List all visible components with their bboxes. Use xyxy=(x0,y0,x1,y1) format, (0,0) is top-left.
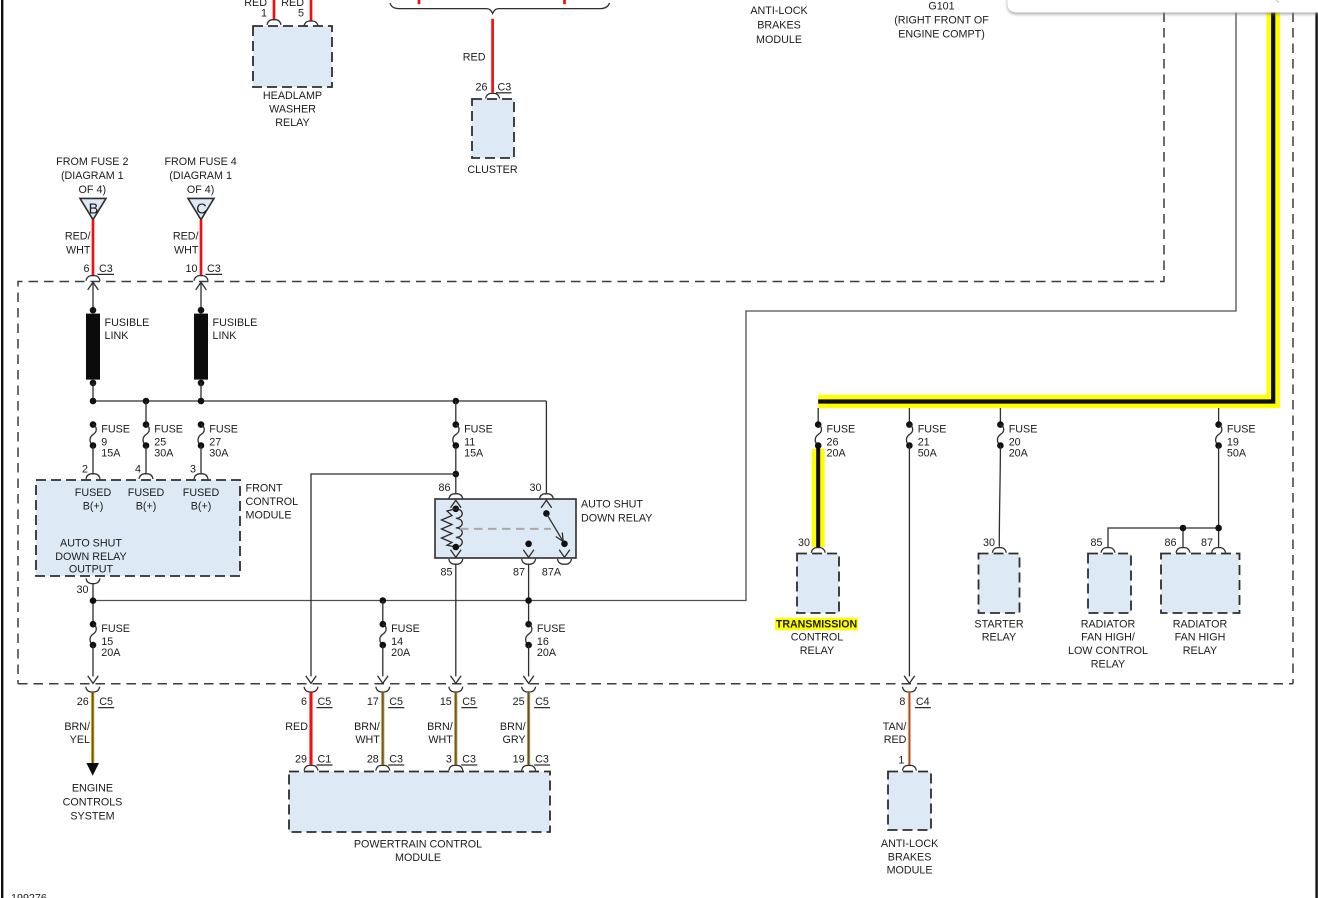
svg-text:DOWN RELAY: DOWN RELAY xyxy=(55,551,126,563)
label AUTO SHUT DOWN RELAY OUTPUT xyxy=(55,538,126,576)
svg-text:TRANSMISSION: TRANSMISSION xyxy=(776,619,857,631)
label FUSE 27 30A xyxy=(209,424,238,460)
svg-text:MODULE: MODULE xyxy=(756,34,802,46)
wire bus corner to ASD relay pin 30 xyxy=(545,401,547,493)
svg-text:15: 15 xyxy=(440,696,452,708)
svg-text:30: 30 xyxy=(530,482,542,494)
svg-text:5: 5 xyxy=(298,8,304,20)
svg-text:C5: C5 xyxy=(99,696,113,708)
svg-text:50A: 50A xyxy=(1227,447,1247,459)
svg-text:FUSE: FUSE xyxy=(1009,424,1038,436)
svg-text:TAN/: TAN/ xyxy=(883,721,907,733)
anti-lock brakes module pin 1 xyxy=(898,755,916,771)
svg-text:OF 4): OF 4) xyxy=(187,184,214,196)
svg-text:C5: C5 xyxy=(462,696,476,708)
svg-text:FUSE: FUSE xyxy=(391,623,420,635)
wire RED to headlamp washer relay pin 1 xyxy=(244,0,281,25)
svg-text:OUTPUT: OUTPUT xyxy=(69,563,114,575)
svg-text:RED/: RED/ xyxy=(65,231,91,243)
svg-text:SYSTEM: SYSTEM xyxy=(70,811,114,823)
label RADIATOR FAN HIGH/LOW CONTROL RELAY xyxy=(1068,618,1148,670)
connector triangle B xyxy=(80,198,106,219)
svg-text:17: 17 xyxy=(367,696,379,708)
svg-text:3: 3 xyxy=(446,754,452,766)
svg-text:BRAKES: BRAKES xyxy=(757,20,801,32)
svg-text:C3: C3 xyxy=(498,82,512,94)
svg-text:(RIGHT FRONT OF: (RIGHT FRONT OF xyxy=(894,15,989,27)
svg-text:RED/: RED/ xyxy=(173,231,199,243)
svg-text:(DIAGRAM 1: (DIAGRAM 1 xyxy=(61,170,124,182)
svg-text:3: 3 xyxy=(190,464,196,476)
svg-text:CLUSTER: CLUSTER xyxy=(467,164,517,176)
svg-text:20A: 20A xyxy=(827,447,847,459)
fuse 16 20A xyxy=(525,621,532,648)
svg-text:6: 6 xyxy=(301,696,307,708)
svg-text:HEADLAMP: HEADLAMP xyxy=(263,90,322,102)
svg-text:BRAKES: BRAKES xyxy=(888,852,932,864)
svg-text:C3: C3 xyxy=(389,754,403,766)
label FROM FUSE 4 (DIAGRAM 1 OF 4) xyxy=(164,156,236,196)
junction node fan relay 86 xyxy=(1180,525,1187,532)
svg-text:B(+): B(+) xyxy=(191,501,212,513)
svg-text:CONTROLS: CONTROLS xyxy=(63,797,123,809)
radiator fan high/low relay pin 85 xyxy=(1091,537,1115,553)
transmission control relay pin 30 xyxy=(798,537,825,553)
svg-text:FUSE: FUSE xyxy=(827,424,856,436)
svg-text:RELAY: RELAY xyxy=(1183,645,1217,657)
svg-text:RELAY: RELAY xyxy=(982,632,1016,644)
wire bus to fuse 11 xyxy=(455,401,457,425)
svg-text:30: 30 xyxy=(77,584,89,596)
anti-lock brakes module box xyxy=(888,772,931,831)
wire junction to PCM feed drop xyxy=(311,474,456,676)
label AUTO SHUT DOWN RELAY xyxy=(581,499,652,525)
wire fuse 19 to radiator fan relays xyxy=(1108,446,1219,548)
wire RED brace to cluster xyxy=(463,19,493,93)
wire fuse 27 to FCM pin 3 xyxy=(190,446,208,480)
svg-text:30A: 30A xyxy=(209,447,229,459)
svg-text:BRN/: BRN/ xyxy=(427,721,453,733)
wire fuse 25 to FCM pin 4 xyxy=(135,446,153,480)
svg-text:MODULE: MODULE xyxy=(887,865,933,877)
svg-text:15A: 15A xyxy=(101,447,121,459)
svg-text:30A: 30A xyxy=(154,447,174,459)
svg-text:ENGINE COMPT): ENGINE COMPT) xyxy=(898,29,985,41)
highlighted yellow power feed wire xyxy=(818,12,1273,402)
svg-text:C5: C5 xyxy=(389,696,403,708)
junction node fuse 16 / pin 87 xyxy=(525,597,532,604)
svg-text:RED: RED xyxy=(463,52,486,64)
svg-text:19: 19 xyxy=(513,754,525,766)
label FUSIBLE LINK right xyxy=(213,317,258,342)
svg-text:FAN HIGH: FAN HIGH xyxy=(1175,632,1226,644)
svg-text:30: 30 xyxy=(798,537,810,549)
svg-text:B(+): B(+) xyxy=(136,501,157,513)
svg-text:20A: 20A xyxy=(1009,447,1029,459)
svg-text:RED: RED xyxy=(884,734,907,746)
starter relay box xyxy=(979,554,1020,614)
wire fuse 20 to starter relay xyxy=(999,446,1000,547)
junction node fuse 25 tap xyxy=(143,398,150,405)
wire yellow bus to fuse 19 xyxy=(1218,408,1220,425)
svg-text:FUSED: FUSED xyxy=(183,487,220,499)
svg-text:FUSE: FUSE xyxy=(154,424,183,436)
svg-text:C: C xyxy=(196,202,206,218)
ASD contact 87 node xyxy=(525,541,532,548)
wire RED to PCM xyxy=(285,692,311,765)
right page border xyxy=(1315,0,1317,898)
svg-text:FUSE: FUSE xyxy=(918,424,947,436)
ASD switch pivot node xyxy=(543,510,550,517)
svg-text:LOW CONTROL: LOW CONTROL xyxy=(1068,645,1148,657)
svg-text:RADIATOR: RADIATOR xyxy=(1081,618,1136,630)
wire fuse 14 to boundary xyxy=(378,645,389,683)
svg-text:WHT: WHT xyxy=(355,734,380,746)
svg-text:BRN/: BRN/ xyxy=(500,721,526,733)
svg-text:ANTI-LOCK: ANTI-LOCK xyxy=(881,838,939,850)
svg-text:87: 87 xyxy=(1201,537,1213,549)
wire from top right to relay bus xyxy=(93,13,1236,601)
svg-text:ANTI-LOCK: ANTI-LOCK xyxy=(750,5,808,17)
svg-text:AUTO SHUT: AUTO SHUT xyxy=(60,538,122,550)
ASD coil ground arrow 85 xyxy=(451,550,462,558)
svg-text:RADIATOR: RADIATOR xyxy=(1173,618,1228,630)
connector 17 C5 xyxy=(367,687,404,708)
wire RED/WHT from C to connector 10 C3 xyxy=(173,220,201,276)
label HEADLAMP WASHER RELAY xyxy=(263,90,322,129)
radiator fan high relay box xyxy=(1161,554,1240,614)
svg-text:26: 26 xyxy=(77,696,89,708)
wire yellow bus to fuse 21 xyxy=(908,408,910,425)
radiator fan high relay pin 86 xyxy=(1165,537,1190,553)
label FUSE 11 15A xyxy=(464,424,493,460)
arrow PCM feed into bottom boundary xyxy=(306,676,317,684)
label TRANSMISSION CONTROL RELAY xyxy=(775,618,858,657)
svg-text:AUTO SHUT: AUTO SHUT xyxy=(581,499,643,511)
svg-text:199276: 199276 xyxy=(11,892,47,898)
svg-text:C3: C3 xyxy=(207,263,221,275)
auto shut down relay box xyxy=(435,499,576,558)
label FUSE 20 20A xyxy=(1009,424,1038,460)
label ENGINE CONTROLS SYSTEM xyxy=(63,783,123,823)
svg-text:GRY: GRY xyxy=(502,734,525,746)
ASD switch arm xyxy=(546,513,563,541)
svg-text:20A: 20A xyxy=(537,647,557,659)
svg-text:RELAY: RELAY xyxy=(275,117,309,129)
svg-text:50A: 50A xyxy=(918,447,938,459)
label FUSED B(+) pin4 xyxy=(128,487,165,513)
PCM pin 19 C3 xyxy=(513,754,550,771)
svg-text:MODULE: MODULE xyxy=(246,510,292,522)
brace gathering wires xyxy=(390,3,610,13)
front control module box FCM xyxy=(36,480,240,576)
ASD coil top node xyxy=(453,506,460,513)
wire fuse 16 to boundary xyxy=(523,645,534,683)
svg-text:BRN/: BRN/ xyxy=(354,721,380,733)
svg-text:LINK: LINK xyxy=(213,330,238,342)
wire fuse 9 to FCM pin 2 xyxy=(82,446,100,480)
label POWERTRAIN CONTROL MODULE xyxy=(354,839,482,865)
ASD coil terminal arrow 86 xyxy=(451,500,462,508)
svg-text:FUSED: FUSED xyxy=(128,487,165,499)
svg-text:ENGINE: ENGINE xyxy=(72,783,113,795)
wire bus to fuse 25 xyxy=(145,401,147,425)
label FUSE 14 20A xyxy=(391,623,420,659)
wire yellow bus to fuse 26 xyxy=(817,408,819,425)
label ANTI-LOCK BRAKES MODULE (top) xyxy=(750,5,808,46)
svg-text:15A: 15A xyxy=(464,447,484,459)
highlighted wire fuse 26 to transmission control relay xyxy=(812,446,825,548)
cluster box xyxy=(472,99,514,158)
svg-text:RELAY: RELAY xyxy=(1091,658,1125,670)
ASD switch common arrow 30 xyxy=(541,500,552,508)
fusible link left xyxy=(86,307,100,401)
red wire stub above brace right xyxy=(563,0,566,4)
svg-text:B: B xyxy=(89,202,99,218)
dashed boundary right edge xyxy=(1292,13,1294,684)
svg-text:BRN/: BRN/ xyxy=(64,721,90,733)
svg-text:RELAY: RELAY xyxy=(800,645,834,657)
label FUSED B(+) pin2 xyxy=(75,487,112,513)
label FUSED B(+) pin3 xyxy=(183,487,220,513)
ASD contact 87A node xyxy=(561,541,568,548)
svg-text:FUSE: FUSE xyxy=(464,424,493,436)
svg-text:FUSE: FUSE xyxy=(1227,424,1256,436)
PCM pin 28 C3 xyxy=(367,754,404,771)
dashed boundary of underhood fuse box xyxy=(18,13,1164,684)
svg-text:C3: C3 xyxy=(535,754,549,766)
fuse 25 30A xyxy=(143,421,150,449)
wire RED/WHT from B to connector 6 C3 xyxy=(65,220,93,276)
fuse 20 20A xyxy=(997,421,1004,449)
starter relay pin 30 xyxy=(983,537,1006,553)
svg-text:C3: C3 xyxy=(462,754,476,766)
svg-text:WASHER: WASHER xyxy=(269,104,316,116)
transmission control relay box xyxy=(797,554,839,614)
ASD relay pin 87A xyxy=(542,559,572,579)
ASD relay pin 85 xyxy=(441,559,463,579)
svg-text:CONTROL: CONTROL xyxy=(791,632,844,644)
svg-text:FUSIBLE: FUSIBLE xyxy=(213,317,258,329)
wire BRN/WHT to PCM pin 28 xyxy=(354,692,383,765)
label FRONT CONTROL MODULE xyxy=(246,483,299,522)
wire entering boundary at 10 C3 xyxy=(196,282,207,310)
wire entering boundary at 6 C3 xyxy=(88,282,99,310)
label STARTER RELAY xyxy=(974,618,1023,643)
wire fuse 21 to boundary xyxy=(904,446,915,684)
ASD mechanical linkage dashed xyxy=(460,528,551,530)
svg-text:FUSE: FUSE xyxy=(101,424,130,436)
connector 15 C5 xyxy=(440,687,477,708)
svg-text:G101: G101 xyxy=(928,1,954,13)
radiator fan high relay pin 87 xyxy=(1201,537,1226,553)
dashed boundary bottom edge xyxy=(18,683,1293,685)
wire BRN/GRY to PCM pin 19 xyxy=(500,692,529,765)
junction node fan relay 87 xyxy=(1215,525,1222,532)
svg-text:FUSIBLE: FUSIBLE xyxy=(105,317,150,329)
svg-text:LINK: LINK xyxy=(105,330,130,342)
connector 25 C5 xyxy=(513,687,550,708)
svg-text:OF 4): OF 4) xyxy=(79,184,106,196)
label G101 ground location xyxy=(894,1,989,41)
label FUSE 21 50A xyxy=(918,424,947,460)
svg-text:25: 25 xyxy=(513,696,525,708)
svg-text:28: 28 xyxy=(367,754,379,766)
label FUSE 16 20A xyxy=(537,623,566,659)
FCM output pin 30 xyxy=(77,578,100,624)
svg-text:CONTROL: CONTROL xyxy=(246,496,299,508)
arrow to engine controls system xyxy=(86,763,99,776)
ASD relay resistor xyxy=(442,509,456,547)
svg-text:1: 1 xyxy=(898,755,904,767)
svg-text:YEL: YEL xyxy=(70,734,90,746)
label FUSE 25 30A xyxy=(154,424,183,460)
svg-text:2: 2 xyxy=(82,464,88,476)
PCM pin 3 C3 xyxy=(446,754,477,771)
svg-text:FROM FUSE 4: FROM FUSE 4 xyxy=(164,156,236,168)
svg-text:10: 10 xyxy=(186,263,198,275)
fuse 27 30A xyxy=(198,421,205,449)
headlamp washer relay box xyxy=(253,26,332,87)
connector 8 C4 xyxy=(899,687,930,708)
label FUSE 15 20A xyxy=(101,623,130,659)
ASD relay pin 87 xyxy=(513,559,536,579)
connector 6 C5 xyxy=(301,687,332,708)
wire ASD pin 85 to boundary xyxy=(451,564,462,683)
wire fuse 11 to ASD relay pin 86 xyxy=(455,446,457,494)
svg-text:WHT: WHT xyxy=(428,734,453,746)
ASD output arrow 87 xyxy=(523,550,534,558)
svg-text:FUSE: FUSE xyxy=(209,424,238,436)
svg-text:8: 8 xyxy=(899,696,905,708)
label ANTI-LOCK BRAKES MODULE (bottom) xyxy=(881,838,939,877)
fuse 19 50A xyxy=(1215,421,1222,449)
svg-text:FUSE: FUSE xyxy=(101,623,130,635)
fuse 15 20A xyxy=(90,621,97,648)
svg-text:C5: C5 xyxy=(535,696,549,708)
label FUSIBLE LINK left xyxy=(105,317,150,342)
junction node fuse 14 tap xyxy=(380,597,387,604)
svg-text:STARTER: STARTER xyxy=(974,618,1023,630)
svg-text:85: 85 xyxy=(441,567,453,579)
svg-text:DOWN RELAY: DOWN RELAY xyxy=(581,512,652,524)
PCM pin 29 C1 xyxy=(295,754,332,771)
fuse 11 15A xyxy=(453,421,460,449)
svg-text:MODULE: MODULE xyxy=(395,852,441,864)
ASD relay pin 30 xyxy=(530,482,554,499)
svg-text:C4: C4 xyxy=(916,696,930,708)
label FROM FUSE 2 (DIAGRAM 1 OF 4) xyxy=(56,156,128,196)
ASD relay coil xyxy=(456,509,462,547)
svg-text:4: 4 xyxy=(135,464,141,476)
ASD output arrow 87A xyxy=(559,550,570,558)
junction node fuse 11 / PCM feed xyxy=(453,471,460,478)
wire RED to headlamp washer relay pin 5 xyxy=(281,0,318,26)
wire fuse 15 to boundary xyxy=(88,645,99,683)
powertrain control module box xyxy=(289,772,550,833)
svg-text:C5: C5 xyxy=(318,696,332,708)
label FUSE 19 50A xyxy=(1227,424,1256,460)
bus wire from fusible links xyxy=(93,400,546,402)
left page border xyxy=(1,0,3,898)
red wire stub above brace left xyxy=(418,0,421,4)
svg-text:(DIAGRAM 1: (DIAGRAM 1 xyxy=(169,170,232,182)
wire BRN/YEL to engine controls xyxy=(64,692,92,763)
wire BRN/WHT to PCM pin 3 xyxy=(427,692,456,765)
wire ASD pin 87 to bus xyxy=(528,564,530,624)
ASD relay pin 86 xyxy=(439,482,463,499)
svg-text:C1: C1 xyxy=(318,754,332,766)
svg-text:6: 6 xyxy=(84,263,90,275)
connector triangle C xyxy=(188,198,214,219)
svg-text:FROM FUSE 2: FROM FUSE 2 xyxy=(56,156,128,168)
fuse 9 15A xyxy=(90,421,97,449)
svg-text:B(+): B(+) xyxy=(83,501,104,513)
fusible link right xyxy=(194,307,208,401)
junction node fusible link B xyxy=(90,398,97,405)
fuse 14 20A xyxy=(380,621,387,648)
junction node fuse 11 tap xyxy=(453,398,460,405)
svg-text:WHT: WHT xyxy=(174,245,199,257)
label FUSE 26 20A xyxy=(827,424,856,460)
svg-text:FRONT: FRONT xyxy=(246,483,283,495)
svg-text:20A: 20A xyxy=(391,647,411,659)
junction node fusible link C xyxy=(198,398,205,405)
svg-text:RED: RED xyxy=(285,721,308,733)
svg-text:30: 30 xyxy=(983,537,995,549)
svg-text:FUSED: FUSED xyxy=(75,487,112,499)
ASD coil bottom node xyxy=(453,544,460,551)
connector pin 6 C3 xyxy=(84,263,114,281)
svg-text:POWERTRAIN CONTROL: POWERTRAIN CONTROL xyxy=(354,839,482,851)
svg-text:85: 85 xyxy=(1091,537,1103,549)
svg-text:29: 29 xyxy=(295,754,307,766)
svg-text:FUSE: FUSE xyxy=(537,623,566,635)
radiator fan high/low control relay box xyxy=(1088,554,1131,614)
svg-text:87A: 87A xyxy=(542,567,562,579)
svg-text:26: 26 xyxy=(476,82,488,94)
svg-text:1: 1 xyxy=(261,8,267,20)
connector pin 10 C3 xyxy=(186,263,222,281)
cluster pin 26 C3 xyxy=(476,82,512,99)
wire TAN/RED to anti-lock brakes module xyxy=(883,692,910,765)
wire yellow bus to fuse 20 xyxy=(999,408,1001,425)
svg-text:20A: 20A xyxy=(101,647,121,659)
svg-text:86: 86 xyxy=(1165,537,1177,549)
junction node FCM output to bus xyxy=(90,597,97,604)
fuse 26 20A xyxy=(815,421,822,449)
svg-text:FAN HIGH/: FAN HIGH/ xyxy=(1081,632,1135,644)
fuse 21 50A xyxy=(906,421,913,449)
svg-text:86: 86 xyxy=(439,482,451,494)
svg-text:WHT: WHT xyxy=(66,245,91,257)
overlay popup top right xyxy=(1008,0,1318,13)
connector 26 C5 xyxy=(77,687,114,708)
wire bus to fuse 14 xyxy=(382,601,384,625)
svg-text:87: 87 xyxy=(513,567,525,579)
label RADIATOR FAN HIGH RELAY xyxy=(1173,618,1228,657)
svg-text:C3: C3 xyxy=(99,263,113,275)
label FUSE 9 15A xyxy=(101,424,130,460)
